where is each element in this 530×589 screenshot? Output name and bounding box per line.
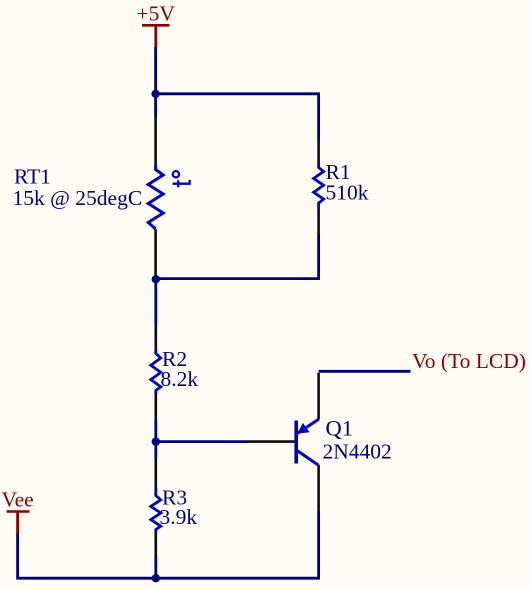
- wire node C to Q1 base: [156, 440, 248, 443]
- resistor R3 pin 2: [155, 533, 158, 555]
- svg-text:Vo (To LCD): Vo (To LCD): [412, 349, 526, 373]
- svg-text:8.2k: 8.2k: [161, 367, 199, 391]
- resistor R1 pin 2: [317, 209, 320, 234]
- transistor Q1 emitter diagonal: [297, 419, 318, 433]
- wire R2 to node C: [154, 420, 157, 442]
- transistor Q1 base bar: [294, 421, 298, 464]
- svg-text:Q1: Q1: [326, 416, 354, 441]
- svg-text:15k @ 25degC: 15k @ 25degC: [13, 186, 143, 210]
- svg-text:510k: 510k: [326, 181, 369, 205]
- node C junction dot: [152, 437, 160, 445]
- svg-text:+5V: +5V: [137, 1, 176, 25]
- transistor Q1 base pin: [248, 440, 295, 443]
- thermistor RT1 pin 2: [154, 229, 157, 275]
- svg-text:2N4402: 2N4402: [323, 440, 392, 464]
- thermistor RT1 t-degree symbol: [173, 171, 190, 187]
- power +5V bar symbol: [142, 24, 170, 27]
- transistor Q1 collector diagonal: [297, 451, 318, 466]
- resistor R1 pin 1: [317, 140, 320, 164]
- resistor R1 body zigzag: [314, 164, 324, 210]
- wire node B to R2: [154, 279, 157, 325]
- svg-text:3.9k: 3.9k: [160, 505, 198, 529]
- wire Vee to bottom rail: [18, 533, 156, 578]
- power Vee bar symbol: [7, 510, 30, 513]
- wire node A to R1 top: [156, 94, 319, 140]
- transistor Q1 collector pin: [317, 465, 320, 511]
- node A junction dot: [151, 90, 159, 98]
- resistor R2 pin 2: [155, 394, 158, 420]
- transistor Q1 emitter arrow: [297, 423, 309, 434]
- resistor R3 pin 1: [155, 458, 158, 488]
- wire R3 to bottom rail: [154, 555, 157, 578]
- resistor R2 pin 1: [155, 325, 158, 349]
- resistor R3 body zigzag: [151, 488, 161, 533]
- svg-text:Vee: Vee: [2, 488, 34, 512]
- wire node A to RT1 pin 1: [154, 94, 157, 117]
- node D junction dot: [152, 574, 160, 582]
- resistor R2 body zigzag: [151, 349, 161, 394]
- wire R1 bottom to node B: [156, 234, 319, 279]
- wire Q1 emitter to Vo: [319, 370, 411, 373]
- thermistor RT1 body zigzag: [148, 165, 163, 230]
- thermistor RT1 pin 1: [154, 117, 157, 165]
- wire +5V stem to node A: [154, 47, 157, 94]
- transistor Q1 emitter pin: [317, 373, 320, 420]
- power +5V stem: [154, 25, 157, 47]
- node B junction dot: [152, 275, 160, 283]
- wire bottom rail to Q1 collector: [156, 511, 319, 578]
- power Vee stem: [16, 512, 19, 534]
- wire R3 top: [154, 442, 157, 458]
